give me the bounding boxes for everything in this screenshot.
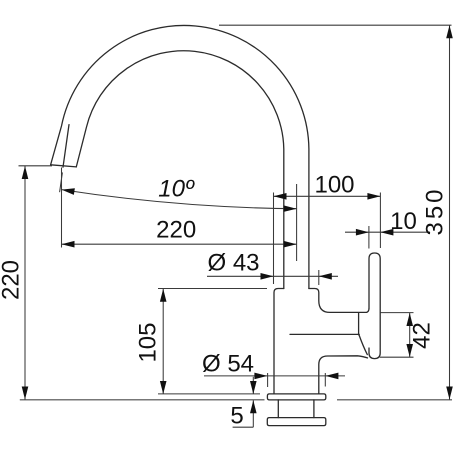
svg-text:220: 220 [156,217,196,244]
svg-text:10: 10 [390,208,417,235]
svg-text:105: 105 [135,322,162,362]
svg-text:100: 100 [314,171,354,198]
svg-text:Ø 54: Ø 54 [202,351,254,378]
svg-text:Ø 43: Ø 43 [207,250,259,277]
svg-text:5: 5 [230,403,243,430]
svg-text:10º: 10º [158,176,195,203]
svg-text:220: 220 [0,260,24,300]
svg-text:42: 42 [408,322,435,349]
svg-text:350: 350 [422,186,449,235]
